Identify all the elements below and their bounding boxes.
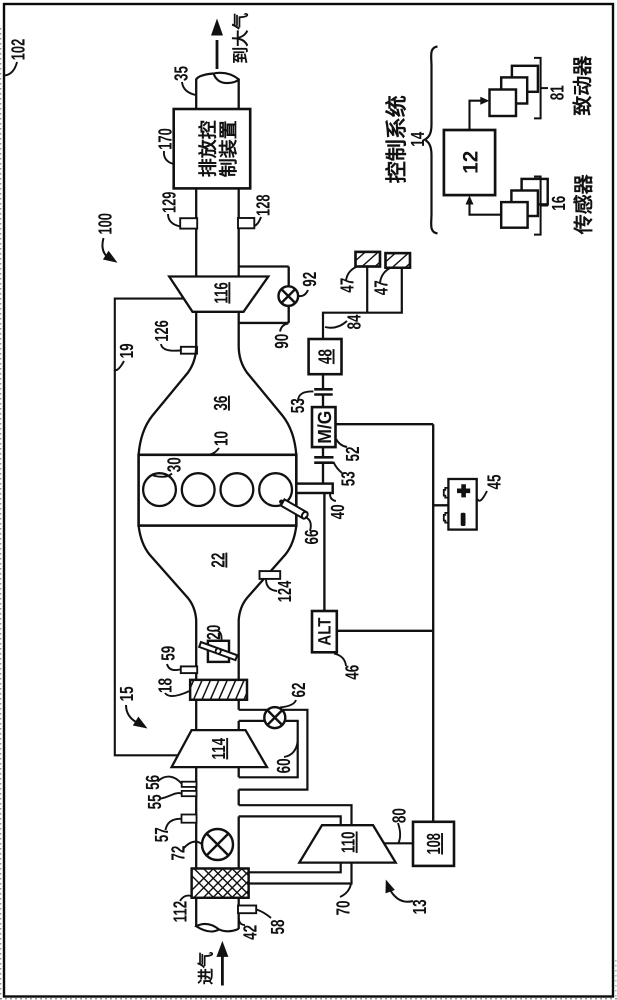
leader 129 (168, 214, 181, 227)
leader 92 (299, 290, 309, 296)
wire bypass duct 70 outer (239, 805, 352, 883)
wire exhaust pipe left wall (195, 188, 197, 276)
sensor 56 (182, 782, 197, 787)
wheel 47 a (348, 251, 393, 268)
tick 81 (541, 87, 548, 89)
throttle 20 plate (199, 642, 237, 660)
sensor 128 (238, 218, 254, 228)
leader 126 (161, 344, 180, 351)
leader 59 (167, 664, 180, 670)
svg-text:92: 92 (300, 272, 321, 287)
arrow leader 15 (126, 705, 136, 722)
svg-text:100: 100 (95, 213, 116, 235)
svg-text:60: 60 (274, 758, 295, 773)
svg-text:66: 66 (302, 530, 323, 545)
sensor 129 (180, 218, 197, 228)
svg-text:40: 40 (328, 504, 349, 519)
sensor 57 (182, 815, 197, 823)
shaft clutch to transmission (322, 374, 324, 389)
svg-text:80: 80 (390, 808, 411, 823)
svg-text:57: 57 (152, 827, 173, 842)
leader 55 (161, 793, 182, 798)
throttle 20 box (208, 641, 229, 662)
svg-text:84: 84 (345, 314, 366, 329)
svg-text:114: 114 (209, 738, 230, 760)
svg-text:到大气: 到大气 (231, 13, 250, 64)
sensor 58 (238, 906, 256, 914)
cylinder 30 #1 (143, 473, 176, 506)
svg-text:控制系统: 控制系统 (384, 95, 409, 183)
wire electrical bus (432, 424, 434, 822)
svg-text:90: 90 (272, 334, 293, 349)
arrow 12 to actuators (470, 101, 485, 130)
emission control device 170 box (174, 109, 251, 188)
shaft engine to clutch (322, 463, 324, 484)
svg-text:62: 62 (289, 683, 310, 698)
wire ALT to bus (337, 630, 433, 632)
transmission 48 box (309, 339, 342, 374)
actuator square back (512, 66, 538, 92)
leader 128 (254, 217, 261, 226)
svg-text:128: 128 (254, 194, 275, 216)
electric compressor 110 (299, 825, 395, 862)
arrow sensors to 12 (470, 201, 502, 215)
wire intake arrow 进气 (221, 956, 224, 986)
svg-text:110: 110 (339, 831, 360, 853)
sensor 55 (182, 791, 197, 796)
brace control system 14 (425, 47, 438, 234)
leader 40 (330, 494, 336, 501)
svg-text:70: 70 (334, 901, 355, 916)
leader 112 (180, 896, 192, 901)
cylinder 30 #2 (182, 473, 215, 506)
svg-text:58: 58 (268, 920, 289, 935)
arrow leader 100 (102, 238, 108, 258)
leader 45 (478, 491, 488, 501)
leader 30 (153, 474, 172, 477)
wire intake inlet left wall (195, 898, 197, 927)
svg-text:48: 48 (316, 349, 337, 364)
svg-text:72: 72 (168, 846, 189, 861)
svg-text:108: 108 (424, 833, 445, 855)
wire pipe below 114 left wall (195, 767, 197, 868)
cylinder 30 #3 (221, 473, 254, 506)
sensor square front (501, 202, 527, 228)
wire exhaust pipe right wall (238, 188, 240, 276)
svg-text:53: 53 (338, 471, 359, 486)
wire exhaust outlet arrow line (216, 40, 219, 69)
svg-text:56: 56 (143, 775, 164, 790)
battery 45 (444, 479, 477, 530)
leader 170 (164, 151, 174, 164)
shaft clutch to MG (322, 447, 324, 457)
motor-generator M/G 52 box (312, 407, 336, 447)
leader 53 lower (334, 462, 343, 473)
clutch 53 upper (314, 389, 333, 394)
leader 53 upper (298, 391, 313, 401)
svg-text:36: 36 (211, 396, 232, 411)
clutch 53 lower (314, 457, 333, 462)
svg-text:进气: 进气 (196, 951, 215, 985)
svg-text:19: 19 (117, 343, 138, 358)
svg-text:10: 10 (211, 431, 232, 446)
svg-text:129: 129 (160, 192, 181, 214)
svg-text:112: 112 (171, 901, 192, 923)
svg-text:14: 14 (408, 131, 429, 146)
alternator ALT box (312, 611, 337, 652)
leader 10 (206, 448, 220, 455)
sensor 59 (181, 666, 197, 673)
wire exhaust runner right wall (239, 312, 297, 455)
wheel 47 b (378, 252, 423, 269)
svg-text:15: 15 (117, 686, 138, 701)
crankshaft 40 bar (296, 484, 332, 493)
sensor port 124 (260, 571, 281, 579)
svg-text:52: 52 (343, 447, 364, 462)
leader 46 (334, 654, 346, 667)
wire axle wheel1 (366, 267, 368, 313)
leader 52 (336, 439, 347, 447)
wire intake inlet right wall (238, 898, 240, 929)
svg-text:22: 22 (208, 553, 229, 568)
leader 57 (166, 819, 182, 830)
wire exhaust tailpipe 35 (196, 74, 213, 111)
svg-text:18: 18 (155, 678, 176, 693)
leader 66 (305, 517, 311, 531)
wire bus to battery (433, 504, 448, 506)
wire pipe 18-114 right wall lower (238, 721, 240, 730)
wire pipe below 114 right wall a (238, 767, 240, 777)
svg-text:81: 81 (548, 85, 569, 100)
svg-text:170: 170 (156, 128, 177, 150)
wire pipe below 114 right wall b (238, 790, 240, 806)
tick 16 (541, 205, 548, 207)
svg-text:47: 47 (372, 280, 393, 295)
leader 42 (239, 918, 245, 925)
leader 102 (5, 62, 17, 76)
valve 92 (279, 286, 299, 306)
leader 84 (325, 321, 347, 328)
svg-text:传感器: 传感器 (573, 173, 596, 235)
svg-text:42: 42 (241, 925, 262, 940)
leader 60 (284, 741, 298, 757)
node tailpipe mouth lens (214, 73, 239, 83)
svg-text:46: 46 (343, 665, 364, 680)
engine block 10 band (139, 455, 297, 526)
leader 19 (114, 361, 124, 370)
wire intake runner left wall (139, 526, 197, 681)
sensor square mid (511, 191, 538, 217)
bracket 16 (534, 177, 541, 235)
turbine 116 (169, 277, 268, 312)
leader 47 a (346, 267, 357, 282)
air filter 112 (180, 864, 294, 902)
leader 56 (158, 777, 182, 784)
svg-text:M/G: M/G (315, 411, 336, 444)
svg-text:排放控制装置: 排放控制装置 (197, 120, 240, 177)
valve 62 (264, 707, 285, 728)
controller 12 box (444, 130, 495, 195)
sensor square back (522, 179, 548, 205)
svg-text:45: 45 (485, 474, 506, 489)
wire MG to bus (336, 423, 434, 425)
leader 124 (266, 579, 277, 591)
leader 20 (215, 630, 222, 639)
wire exhaust runner left wall (139, 312, 197, 455)
shaft MG to clutch upper (322, 395, 324, 408)
svg-text:12: 12 (459, 151, 482, 174)
svg-text:16: 16 (549, 196, 570, 211)
leader 72 (183, 842, 202, 849)
wire wastegate lower (239, 322, 289, 324)
wire intake runner right wall (239, 526, 297, 681)
shaft crank to ALT (323, 493, 325, 611)
wire wastegate upper (239, 265, 289, 267)
svg-text:30: 30 (165, 457, 186, 472)
svg-text:ALT: ALT (315, 618, 335, 646)
wire pipe 18-114 left wall (195, 700, 197, 730)
wire wastegate right (288, 267, 290, 323)
wire driveline 84 (323, 268, 402, 339)
leader 18 (165, 691, 190, 696)
leader 80 (398, 823, 400, 843)
wire inlet mouth near rim (219, 929, 239, 931)
leader 90 (280, 324, 288, 332)
motor 108 box (413, 822, 454, 866)
node inlet mouth lens (196, 924, 219, 932)
svg-text:55: 55 (145, 794, 166, 809)
wire pipe 18-114 right wall upper (238, 700, 240, 710)
wire pipe below 114 right wall c (238, 816, 240, 868)
charge air cooler 18 (176, 679, 253, 702)
svg-text:116: 116 (211, 282, 232, 304)
svg-text:47: 47 (338, 278, 359, 293)
wire recirc duct 60 outer (239, 710, 308, 790)
leader 35 (182, 82, 196, 95)
svg-text:124: 124 (275, 580, 296, 602)
compressor 114 (172, 730, 267, 767)
wire recirc duct 60 inner (239, 721, 298, 777)
leader 62 (280, 700, 296, 708)
svg-text:59: 59 (158, 646, 179, 661)
actuator square front (490, 90, 517, 117)
leader 47 b (380, 268, 390, 283)
sensor 126 (181, 347, 197, 354)
wire 80 line (384, 842, 413, 844)
wire EGR pipe 19 (115, 299, 184, 756)
wire exhaust tailpipe right wall (238, 79, 240, 110)
svg-text:13: 13 (410, 899, 431, 914)
actuator square mid (501, 77, 527, 103)
leader 58 (257, 910, 272, 919)
svg-text:致动器: 致动器 (571, 55, 594, 116)
svg-text:126: 126 (152, 320, 173, 342)
svg-text:35: 35 (172, 66, 193, 81)
valve 72 (202, 829, 233, 860)
cylinder 30 #4 (259, 473, 292, 506)
wire bypass duct 70 inner (239, 816, 341, 872)
bracket 81 (534, 58, 541, 119)
leader 70 (340, 884, 351, 897)
arrow leader 13 (389, 888, 413, 902)
svg-text:102: 102 (9, 39, 30, 61)
fuel injector 66 (278, 498, 309, 520)
